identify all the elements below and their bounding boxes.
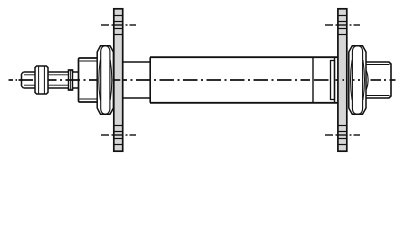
- left flange plate: [113, 9, 123, 151]
- centerline right segments: [352, 79, 396, 81]
- rear stub face arc: [366, 71, 368, 90]
- right flange top hole centerline: [325, 24, 360, 26]
- rear cap joint line: [334, 58, 336, 103]
- left flange bottom hole centerline: [101, 134, 136, 136]
- rod nut: [35, 66, 48, 94]
- centerline over flange plates: [113, 79, 344, 81]
- cylinder tube: [150, 57, 338, 103]
- rear stub: [366, 62, 391, 98]
- main centerline: [9, 79, 339, 81]
- right flange plate: [338, 9, 348, 151]
- left flange top hole centerline: [101, 24, 136, 26]
- front neck: [123, 62, 150, 98]
- rod collar: [69, 70, 73, 90]
- front end cap block: [79, 58, 101, 102]
- rear groove ring: [331, 61, 335, 100]
- rear hex nut: [349, 46, 366, 114]
- front hex: [97, 46, 113, 114]
- collar chamfer line: [70, 71, 72, 90]
- rod thread lines: [24, 75, 68, 85]
- right flange bottom hole centerline: [325, 134, 360, 136]
- piston rod: [22, 72, 80, 88]
